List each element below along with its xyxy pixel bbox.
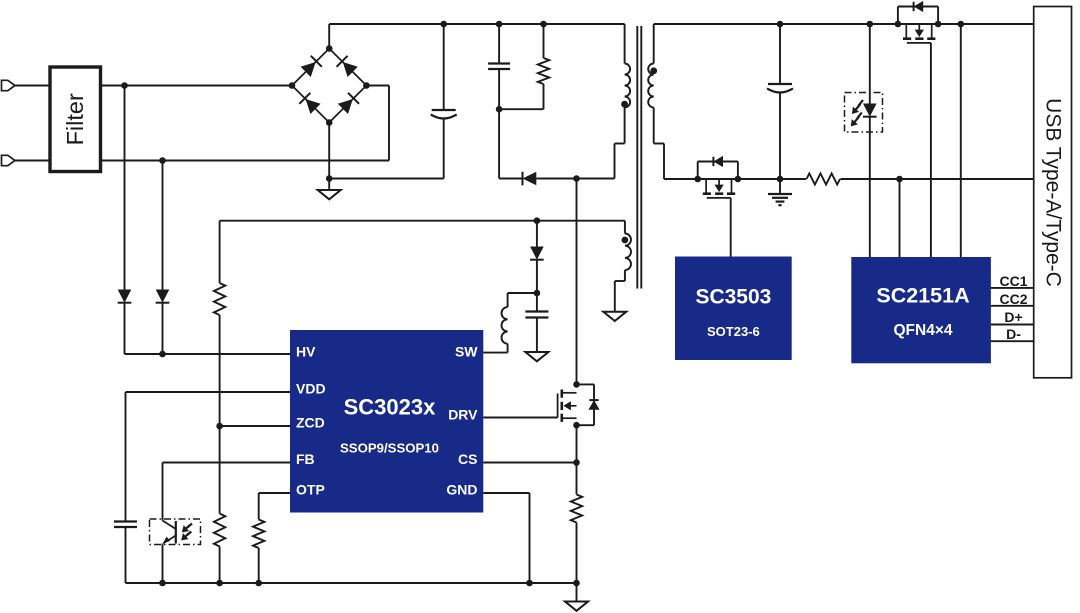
node clamp cap top: [496, 21, 503, 28]
node rail to SC2151A: [958, 21, 965, 28]
wire J2 to filter: [15, 160, 50, 162]
wire CS pin: [483, 462, 576, 464]
svg-text:DRV: DRV: [448, 407, 478, 423]
op-amp U4 SC2151A: [851, 257, 991, 363]
resistor R1 clamp: [543, 24, 545, 58]
resistor R2 (aux upper divider): [219, 221, 221, 283]
node live tap: [121, 82, 128, 89]
aux dot (phase): [622, 237, 629, 244]
node clamp RC: [496, 106, 503, 113]
svg-text:SW: SW: [455, 344, 478, 360]
wire DRV pin: [483, 417, 557, 419]
diode D1 clamp (points left): [522, 172, 524, 186]
wire clamp to diode: [499, 178, 522, 180]
svg-text:CS: CS: [458, 451, 477, 467]
diode D4 from neutral to HV: [162, 161, 164, 290]
wire clamp down: [498, 109, 500, 178]
rail nodes: [159, 580, 166, 587]
wire rail sense down: [960, 24, 962, 257]
resistor R3 (lower divider): [219, 426, 221, 514]
wire HV pin: [125, 353, 291, 355]
node bulk cap top: [440, 21, 447, 28]
transformer primary winding: [624, 24, 626, 64]
optocoupler U2 LED box: [845, 93, 883, 133]
wire primary ground rail: [126, 582, 577, 584]
transistor Q2 sync rectifier: [697, 162, 699, 180]
wire CC1: [991, 287, 1034, 289]
transformer aux winding: [624, 221, 626, 234]
transistor Q1 main switch: [577, 383, 595, 385]
ground (primary return): [328, 179, 330, 191]
bridge diode BD2 (right-top edge): [329, 49, 366, 86]
svg-text:SC3503: SC3503: [695, 286, 771, 309]
wire HV rail (primary): [329, 23, 624, 25]
wire J1 to filter: [15, 85, 50, 87]
svg-text:SOT23-6: SOT23-6: [707, 324, 760, 339]
bridge diode BD1 (left-top edge): [292, 49, 329, 86]
diode D2 (SW supply): [536, 221, 538, 247]
diode D3 from live to HV: [124, 86, 126, 290]
wire VDD pin: [126, 391, 291, 393]
svg-text:SC3023x: SC3023x: [344, 395, 437, 420]
wire GND pin: [483, 492, 529, 494]
svg-text:SSOP9/SSOP10: SSOP9/SSOP10: [340, 441, 439, 456]
node clamp resistor top: [540, 21, 547, 28]
capacitor C2 clamp: [498, 24, 500, 64]
transformer secondary winding: [653, 24, 655, 64]
svg-text:D+: D+: [1004, 309, 1022, 325]
svg-text:D-: D-: [1006, 326, 1021, 342]
capacitor C1 bulk electrolytic: [443, 24, 445, 110]
wire D-: [991, 340, 1034, 342]
node opto LED tap: [867, 21, 874, 28]
node feedback tap: [896, 176, 903, 183]
AC input terminal J2 (neutral): [2, 155, 16, 165]
AC input terminal J1 (line): [2, 80, 16, 90]
svg-text:USB Type-A/Type-C: USB Type-A/Type-C: [1041, 98, 1064, 287]
inductor L1 (SW): [508, 292, 537, 294]
transformer core: [636, 26, 638, 289]
svg-text:GND: GND: [446, 482, 477, 498]
node output cap top: [777, 21, 784, 28]
svg-text:OTP: OTP: [296, 482, 325, 498]
primary dot (phase): [621, 101, 628, 108]
bridge corner nodes: [326, 45, 333, 52]
node aux-diode tap: [534, 217, 541, 224]
bridge diode BD4 (bottom-right edge): [329, 86, 366, 123]
wire drain line: [576, 179, 578, 385]
opto light arrows: [183, 524, 192, 532]
wire feedback down: [899, 179, 901, 257]
op-amp U1 SC3023x: [290, 330, 483, 513]
node ZCD: [216, 423, 223, 430]
bridge diode BD3 (bottom-left edge): [292, 86, 329, 123]
EMI filter block: [50, 67, 101, 172]
svg-text:HV: HV: [296, 344, 316, 360]
svg-text:Filter: Filter: [62, 93, 88, 145]
ground (secondary, earth style): [779, 179, 781, 194]
wire secondary return: [664, 178, 1034, 180]
capacitor C5 output: [779, 24, 781, 84]
wire D+: [991, 324, 1034, 326]
svg-text:SC2151A: SC2151A: [876, 284, 969, 308]
wire neutral: filter to bridge right: [101, 160, 390, 162]
svg-text:VDD: VDD: [296, 381, 326, 397]
node neutral tap: [159, 157, 166, 164]
node output cap bottom: [777, 176, 784, 183]
wire OTP pin: [259, 492, 290, 494]
wire VOUT rail: [654, 23, 1034, 25]
optocoupler U2 LED: [869, 24, 871, 104]
capacitor C3 (VDD): [114, 520, 137, 522]
wire Q1 source to CS: [576, 425, 578, 462]
opto LED light arrows: [853, 100, 863, 113]
node drain / primary bottom: [573, 175, 580, 182]
resistor R5 (sense): [576, 463, 578, 495]
svg-text:QFN4×4: QFN4×4: [893, 322, 952, 339]
transistor Q3 load switch: [897, 7, 899, 25]
USB Type-A/Type-C connector: [1034, 7, 1072, 378]
optocoupler U2 phototransistor: [175, 521, 177, 544]
wire aux line: [220, 220, 625, 222]
secondary dot (phase): [650, 67, 657, 74]
wire CC2: [991, 305, 1034, 307]
wire bridge top to HV rail: [328, 24, 330, 49]
optocoupler U2 transistor box: [150, 519, 201, 545]
wire live: filter to bridge left corner: [101, 85, 293, 87]
wire primary return to bulk cap: [329, 178, 444, 180]
wire FB pin: [163, 462, 291, 464]
svg-text:CC2: CC2: [999, 291, 1027, 307]
wire bridge bottom to primary return: [328, 123, 330, 179]
node CS: [573, 459, 580, 466]
resistor R6 (output sense): [806, 172, 841, 186]
wire clamp RC join: [499, 108, 543, 110]
wire ZCD pin: [220, 425, 290, 427]
ground (main): [576, 583, 578, 602]
op-amp U3 SC3503: [675, 257, 792, 361]
ground (aux winding): [603, 312, 626, 321]
resistor R4 (OTP): [253, 520, 264, 549]
node primary return: [326, 175, 333, 182]
node SW LC: [534, 290, 541, 297]
svg-text:CC1: CC1: [999, 273, 1027, 289]
node HV join: [159, 351, 166, 358]
svg-text:ZCD: ZCD: [296, 415, 325, 431]
ground (SW cap): [525, 352, 548, 361]
capacitor C4 (SW): [536, 293, 538, 312]
svg-text:FB: FB: [296, 451, 315, 467]
